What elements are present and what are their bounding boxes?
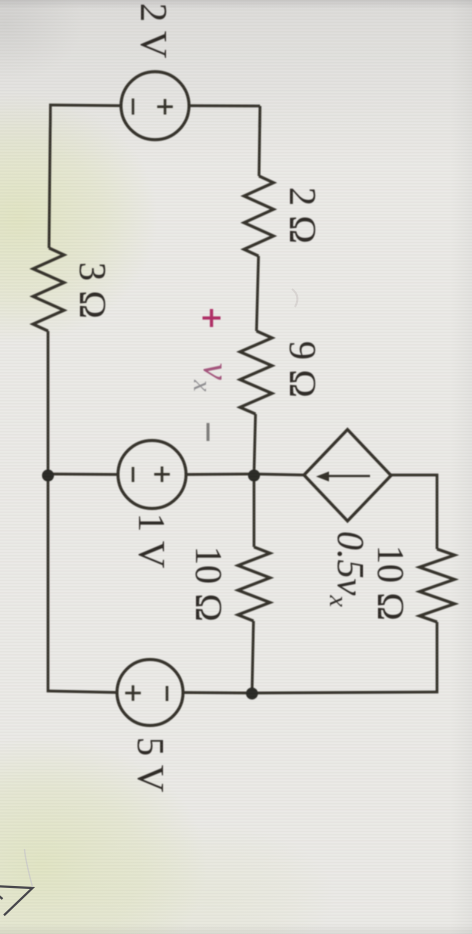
vx plus sign (pink) bbox=[203, 309, 221, 327]
wire 3-ohm to node C bbox=[47, 331, 50, 474]
resistor 9 ohm bbox=[240, 331, 272, 414]
1V plus sign bbox=[154, 467, 170, 483]
wire node A to 10-ohm middle bbox=[253, 474, 256, 547]
wire 10-ohm to diamond bbox=[391, 475, 437, 549]
junction node B bbox=[246, 688, 258, 700]
dependent current source 0.5vx diamond bbox=[304, 430, 391, 522]
wire top-left corner to 2V source bbox=[188, 104, 260, 107]
junction node C bbox=[42, 470, 54, 482]
wire 2-ohm to 9-ohm bbox=[257, 256, 259, 331]
green glow left middle bbox=[0, 93, 158, 343]
5V minus sign bbox=[166, 686, 169, 701]
circuit group: landscape coords rotated 90deg CW bbox=[33, 3, 455, 793]
top-left dark corner bbox=[0, 0, 83, 82]
dependent source arrowhead bbox=[316, 472, 329, 482]
wire diamond to node A bbox=[254, 474, 304, 475]
wire top rail left to 2-ohm bbox=[259, 106, 260, 176]
dependent source arrow shaft bbox=[326, 475, 370, 477]
voltage source 2V bbox=[121, 72, 189, 140]
wire node A down to 1V bbox=[185, 473, 254, 476]
cursor icon bottom-left bbox=[0, 886, 33, 915]
resistor 10 ohm (middle) bbox=[238, 547, 270, 621]
voltage source 1V bbox=[118, 441, 186, 509]
2V minus sign bbox=[132, 99, 135, 115]
2V plus sign bbox=[157, 99, 173, 115]
faint smudge bbox=[292, 289, 297, 307]
1V minus sign bbox=[132, 467, 135, 482]
resistor 2 ohm bbox=[244, 176, 274, 256]
resistor 3 ohm bbox=[33, 248, 64, 331]
green glow bottom left bbox=[0, 736, 207, 934]
wire 2V to bottom-left corner to 3-ohm bbox=[49, 105, 122, 248]
5V plus sign bbox=[125, 685, 141, 701]
vx minus sign bbox=[207, 423, 210, 441]
edges bbox=[0, 0, 472, 9]
wire node C to bottom-right corner to 5V bbox=[48, 474, 118, 693]
cursor scratch mark bbox=[25, 849, 33, 887]
wire node B up right rail to 10-ohm bbox=[254, 622, 437, 693]
wire 9-ohm to node A bbox=[254, 414, 256, 474]
voltage source 5V bbox=[117, 660, 183, 726]
wire 5V to node B bbox=[182, 691, 252, 694]
junction node A bbox=[248, 470, 260, 482]
resistor 10 ohm (right) bbox=[420, 549, 455, 622]
wire 1V to node C bbox=[48, 473, 119, 476]
wire 10-ohm middle to node B bbox=[252, 621, 254, 693]
